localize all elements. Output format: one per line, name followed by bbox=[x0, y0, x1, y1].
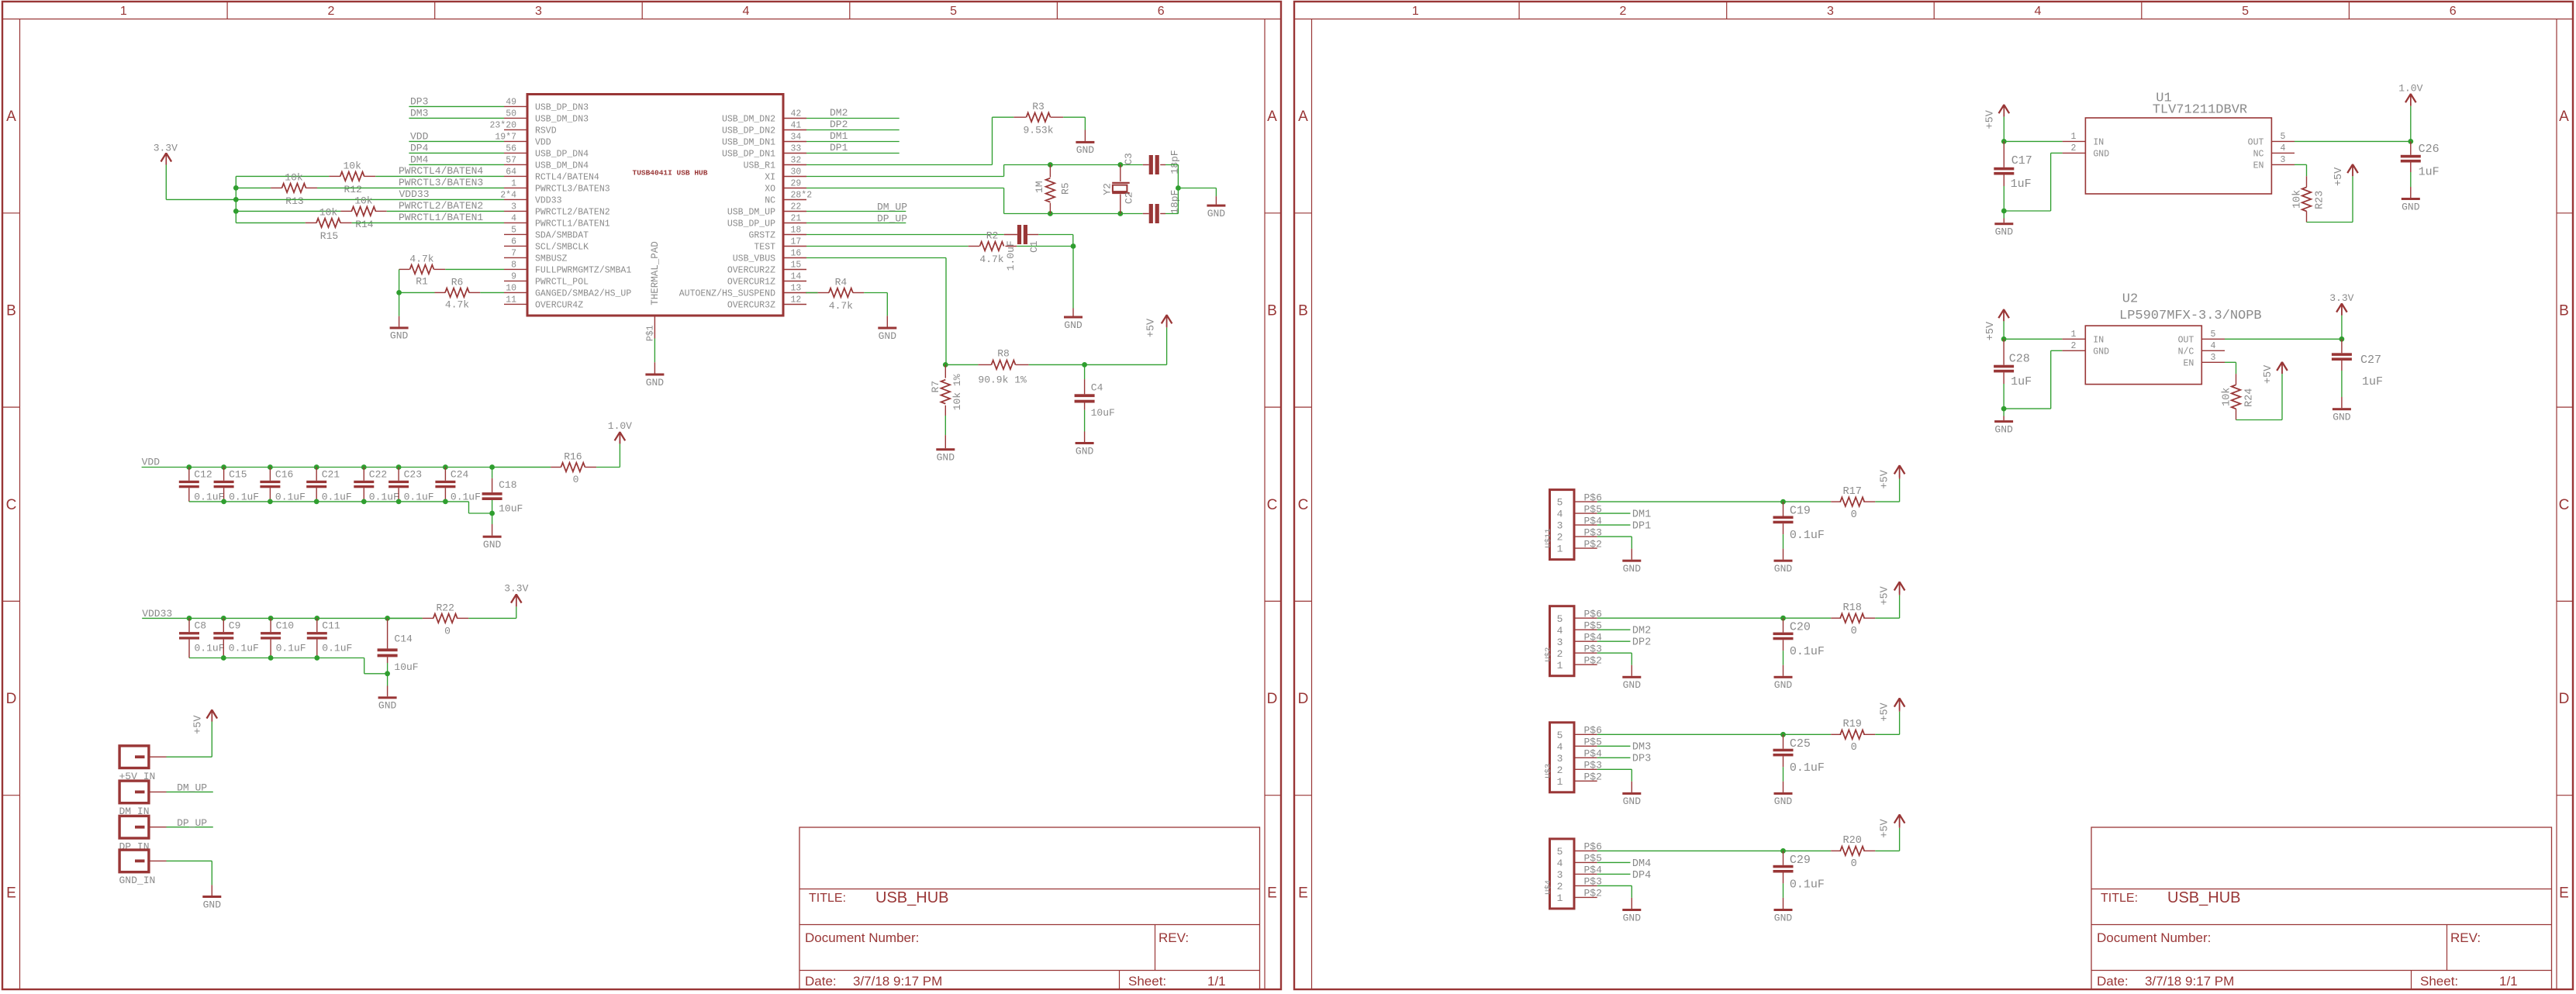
svg-text:C26: C26 bbox=[2419, 143, 2440, 156]
svg-text:NC: NC bbox=[2253, 149, 2264, 159]
svg-text:DM1: DM1 bbox=[1632, 509, 1651, 521]
junction Y2 top bbox=[1117, 162, 1123, 167]
svg-text:EN: EN bbox=[2183, 358, 2194, 368]
svg-text:42: 42 bbox=[791, 109, 802, 119]
svg-text:DM_UP: DM_UP bbox=[177, 782, 207, 794]
capacitor C21 0.1uF bbox=[316, 468, 317, 481]
svg-text:4.7k: 4.7k bbox=[829, 300, 853, 312]
IC left pin 11 OVERCUR4Z bbox=[504, 303, 527, 305]
wire net VDD bbox=[409, 140, 504, 142]
svg-text:R4: R4 bbox=[835, 277, 848, 288]
svg-text:Sheet:: Sheet: bbox=[1128, 974, 1166, 989]
ground symbol below C14 bbox=[387, 686, 388, 697]
svg-text:21: 21 bbox=[791, 214, 802, 224]
svg-text:XO: XO bbox=[765, 185, 775, 195]
svg-text:5: 5 bbox=[2281, 132, 2286, 142]
svg-text:R17: R17 bbox=[1843, 486, 1862, 498]
wire net DM1 bbox=[806, 141, 900, 143]
svg-text:16: 16 bbox=[791, 249, 802, 259]
wire +5V to U1 IN bbox=[2004, 140, 2062, 142]
svg-text:PWRCTL_POL: PWRCTL_POL bbox=[535, 277, 589, 287]
capacitor C27 1uF bbox=[2341, 339, 2343, 353]
svg-text:C27: C27 bbox=[2360, 354, 2381, 367]
bypass row bottom rail to ground of C18 bbox=[189, 501, 469, 502]
svg-text:DM4: DM4 bbox=[1632, 858, 1651, 870]
supply symbol 3.3V (right of R22) bbox=[516, 594, 517, 606]
svg-text:E: E bbox=[1298, 885, 1308, 901]
junction C17 bottom bbox=[2001, 209, 2007, 214]
svg-text:R3: R3 bbox=[1032, 101, 1045, 112]
junction R6 row bbox=[396, 290, 402, 295]
capacitor C17 1uF bbox=[2003, 141, 2005, 167]
svg-text:GANGED/SMBA2/HS_UP: GANGED/SMBA2/HS_UP bbox=[535, 288, 631, 299]
svg-text:1.0V: 1.0V bbox=[2398, 83, 2422, 95]
junction C11 top bbox=[314, 616, 319, 621]
IC left pin 6 SCL/SMBCLK bbox=[504, 245, 527, 247]
svg-text:3: 3 bbox=[535, 5, 542, 18]
junction C27 top bbox=[2339, 337, 2345, 342]
ground symbol below C27 bbox=[2341, 397, 2343, 408]
ground symbol below R1/R6 bbox=[399, 316, 400, 327]
IC left pin 3 PWRCTL2/BATEN2 bbox=[504, 210, 527, 212]
resistor R15 10k bbox=[306, 222, 317, 223]
svg-text:GND: GND bbox=[2333, 412, 2351, 423]
svg-text:5: 5 bbox=[1557, 730, 1563, 741]
svg-text:B: B bbox=[6, 303, 16, 319]
svg-text:3.3V: 3.3V bbox=[504, 582, 528, 594]
svg-text:50: 50 bbox=[506, 109, 516, 119]
capacitor C24 0.1uF bbox=[444, 468, 446, 481]
svg-text:3: 3 bbox=[2281, 155, 2286, 165]
wire net DP_UP (pin 21) bbox=[806, 223, 906, 224]
wire pin 29 XO to crystal bottom rail bbox=[806, 188, 1004, 189]
svg-text:DP2: DP2 bbox=[1632, 637, 1651, 649]
svg-text:GRSTZ: GRSTZ bbox=[748, 231, 775, 241]
connector U$3 body bbox=[1550, 723, 1575, 792]
junction C22 bottom bbox=[361, 499, 367, 505]
svg-text:GND: GND bbox=[203, 899, 222, 910]
wire VDD bypass rail bbox=[142, 467, 551, 468]
capacitor C23 0.1uF bbox=[398, 468, 399, 481]
svg-text:5: 5 bbox=[2242, 5, 2249, 18]
wire P$1 to ground bbox=[654, 339, 655, 363]
wire U2 GND pin to C28 bottom bbox=[2051, 350, 2063, 351]
svg-text:R2: R2 bbox=[986, 230, 999, 242]
connector U$3 pin 2 P$3 bbox=[1574, 768, 1597, 770]
resistor R3 9.53k bbox=[1013, 116, 1026, 118]
svg-text:10k: 10k bbox=[343, 160, 361, 172]
svg-text:8: 8 bbox=[511, 261, 516, 271]
svg-text:0.1uF: 0.1uF bbox=[1790, 529, 1825, 542]
svg-text:Document Number:: Document Number: bbox=[2097, 930, 2211, 945]
svg-text:2: 2 bbox=[1557, 881, 1563, 892]
svg-text:4: 4 bbox=[1557, 509, 1563, 520]
wire net DM2 bbox=[1597, 629, 1631, 630]
ground symbol below U$4 bbox=[1631, 898, 1632, 909]
svg-text:RCTL4/BATEN4: RCTL4/BATEN4 bbox=[535, 172, 599, 182]
wire net DM4 bbox=[409, 164, 504, 165]
IC left pin 64 RCTL4/BATEN4 bbox=[504, 175, 527, 177]
wire net DP2 bbox=[1597, 640, 1631, 642]
svg-text:USB_R1: USB_R1 bbox=[744, 161, 776, 171]
svg-text:GND: GND bbox=[2093, 149, 2109, 159]
svg-text:C28: C28 bbox=[2009, 352, 2030, 365]
IC U$10 TUSB4041I USB HUB body bbox=[527, 95, 783, 316]
svg-text:10k 1%: 10k 1% bbox=[951, 374, 963, 410]
svg-text:C24: C24 bbox=[451, 469, 469, 481]
svg-text:C: C bbox=[1267, 497, 1278, 513]
svg-text:+5V: +5V bbox=[1879, 702, 1891, 721]
resistor R7 10k 1% (vertical) bbox=[944, 364, 946, 378]
svg-text:5: 5 bbox=[511, 226, 516, 236]
svg-text:10k: 10k bbox=[354, 195, 373, 207]
svg-text:1: 1 bbox=[2071, 330, 2077, 340]
wire U$3 P$6 rail bbox=[1597, 733, 1832, 735]
frame inner band lines bbox=[1311, 19, 1313, 990]
svg-text:4: 4 bbox=[2035, 5, 2042, 18]
svg-text:28*2: 28*2 bbox=[791, 191, 813, 201]
capacitor C29 0.1uF bbox=[1783, 851, 1784, 865]
resistor R8 90.9k 1% bbox=[978, 364, 991, 365]
svg-text:18: 18 bbox=[791, 226, 802, 236]
svg-text:TITLE:: TITLE: bbox=[809, 892, 846, 905]
sheet outer border frame bbox=[1294, 2, 2573, 989]
IC right pin 21 USB_DP_UP bbox=[783, 223, 806, 224]
ground symbol below GND_IN bbox=[211, 885, 212, 896]
svg-text:C: C bbox=[1298, 497, 1309, 513]
wire pin 16 USB_VBUS down to divider bbox=[806, 257, 946, 259]
svg-text:DP3: DP3 bbox=[410, 96, 428, 108]
IC U1 TLV71211DBVR body bbox=[2085, 118, 2271, 194]
svg-text:+5V: +5V bbox=[1146, 318, 1158, 337]
frame row ticks bbox=[1294, 212, 1312, 214]
svg-text:B: B bbox=[1267, 303, 1277, 319]
svg-text:1M: 1M bbox=[1034, 181, 1045, 193]
wire U$2 P$3 to ground bbox=[1597, 652, 1632, 654]
wire C14 to ground bbox=[387, 657, 388, 663]
svg-text:GND: GND bbox=[1774, 912, 1793, 923]
resistor R6 4.7k (pin 10) bbox=[435, 292, 446, 293]
IC left pin 9 PWRCTL_POL bbox=[504, 280, 527, 281]
svg-text:11: 11 bbox=[506, 295, 516, 305]
junction C25 top bbox=[1780, 732, 1786, 737]
wire left of resistor R15 bbox=[236, 222, 305, 223]
connector U$3 pin 4 P$5 bbox=[1574, 745, 1597, 747]
IC left pin 50 USB_DM_DN3 bbox=[504, 117, 527, 119]
supply symbol +5V (R19) bbox=[1899, 698, 1901, 712]
junction C19 top bbox=[1780, 499, 1786, 505]
svg-text:GND: GND bbox=[1774, 796, 1793, 807]
svg-text:1: 1 bbox=[1557, 892, 1563, 904]
svg-text:USB_DM_DN4: USB_DM_DN4 bbox=[535, 160, 589, 171]
svg-text:4: 4 bbox=[2281, 143, 2286, 154]
svg-text:R12: R12 bbox=[344, 184, 361, 195]
wire C1 to junction bbox=[1038, 234, 1073, 236]
U2 pin 4 N/C bbox=[2201, 350, 2225, 351]
svg-text:1uF: 1uF bbox=[2362, 375, 2383, 388]
svg-text:3.3V: 3.3V bbox=[154, 143, 178, 154]
svg-text:1: 1 bbox=[1557, 660, 1563, 671]
svg-text:4: 4 bbox=[2211, 341, 2216, 351]
svg-text:P$2: P$2 bbox=[1584, 888, 1602, 899]
svg-text:4.7k: 4.7k bbox=[979, 254, 1003, 265]
svg-text:R23: R23 bbox=[2314, 191, 2326, 209]
capacitor C22 0.1uF bbox=[363, 468, 364, 481]
wire U1 OUT to 1.0V bbox=[2295, 140, 2411, 142]
IC left pin 4 PWRCTL1/BATEN1 bbox=[504, 222, 527, 223]
capacitor C4 10uF bbox=[1084, 379, 1086, 394]
wire R4 to ground bbox=[864, 292, 887, 294]
svg-text:5: 5 bbox=[2211, 330, 2216, 340]
svg-text:USB_DM_UP: USB_DM_UP bbox=[727, 208, 775, 218]
connector U$2 pin 3 P$4 bbox=[1574, 640, 1597, 642]
svg-text:14: 14 bbox=[791, 272, 802, 282]
svg-text:DM4: DM4 bbox=[410, 154, 429, 166]
svg-text:4: 4 bbox=[743, 5, 750, 18]
wire net DM1 bbox=[1597, 513, 1631, 514]
junction C18 bottom bbox=[489, 511, 495, 516]
svg-text:17: 17 bbox=[791, 237, 802, 247]
svg-text:1/1: 1/1 bbox=[1207, 974, 1226, 989]
svg-text:R18: R18 bbox=[1843, 602, 1862, 614]
svg-text:R6: R6 bbox=[451, 277, 464, 288]
svg-text:GND: GND bbox=[1076, 144, 1095, 156]
wire +5V_IN to +5V arrow bbox=[167, 756, 212, 758]
svg-text:D: D bbox=[1298, 691, 1309, 707]
svg-text:2: 2 bbox=[2071, 341, 2077, 351]
svg-text:2: 2 bbox=[1557, 648, 1563, 660]
ground symbol below R7 bbox=[944, 435, 946, 448]
svg-text:A: A bbox=[2559, 109, 2569, 125]
capacitor C18 10uF bbox=[492, 468, 493, 478]
svg-text:3: 3 bbox=[1557, 753, 1563, 764]
svg-text:R22: R22 bbox=[436, 602, 454, 613]
svg-text:1: 1 bbox=[1557, 776, 1563, 788]
svg-text:5: 5 bbox=[1557, 846, 1563, 858]
supply symbol 3.3V (U2 output) bbox=[2341, 316, 2343, 340]
title block outline bbox=[799, 827, 1260, 989]
svg-text:VDD33: VDD33 bbox=[535, 195, 562, 205]
svg-text:1uF: 1uF bbox=[2011, 375, 2032, 388]
wire R8 junction to +5V bbox=[1085, 364, 1167, 365]
wire R20 to +5V bbox=[1875, 850, 1899, 851]
svg-text:PWRCTL2/BATEN2: PWRCTL2/BATEN2 bbox=[535, 207, 610, 217]
svg-text:0: 0 bbox=[444, 625, 451, 637]
wire R17 to +5V bbox=[1875, 501, 1899, 502]
svg-text:GND: GND bbox=[1774, 679, 1793, 691]
wire net DM4 bbox=[1597, 861, 1631, 863]
wire R2 to junction bbox=[1017, 246, 1073, 247]
wire net DM_UP (pin 22) bbox=[806, 211, 906, 212]
svg-text:GND: GND bbox=[2402, 201, 2420, 212]
svg-text:P$2: P$2 bbox=[1584, 771, 1602, 783]
svg-text:R24: R24 bbox=[2243, 388, 2255, 407]
supply symbol +5V (R20) bbox=[1899, 814, 1901, 828]
ground symbol below C28 bbox=[2003, 409, 2005, 416]
junction on rail at PWRCTL3 row bbox=[233, 185, 239, 191]
IC right pin 30 XI bbox=[783, 176, 806, 178]
wire R22 to 3.3V bbox=[468, 617, 516, 619]
svg-text:2*4: 2*4 bbox=[500, 191, 516, 201]
wire +5V to U2 IN bbox=[2004, 338, 2062, 340]
svg-text:GND: GND bbox=[378, 700, 397, 712]
svg-text:5: 5 bbox=[1557, 613, 1563, 625]
svg-text:PWRCTL3/BATEN3: PWRCTL3/BATEN3 bbox=[535, 184, 610, 194]
wire net DP_UP from DP_IN bbox=[167, 827, 213, 828]
wire net DP4 bbox=[409, 152, 504, 154]
IC right pin 33 USB_DP_DN1 bbox=[783, 153, 806, 154]
supply symbol +5V (R17) bbox=[1899, 465, 1901, 479]
wire GND_IN to ground bbox=[167, 860, 212, 861]
svg-text:4: 4 bbox=[1557, 625, 1563, 637]
svg-text:C14: C14 bbox=[394, 633, 413, 644]
svg-text:5: 5 bbox=[1557, 497, 1563, 509]
ground symbol below C29 bbox=[1783, 898, 1784, 909]
frame inner band lines bbox=[19, 19, 21, 990]
svg-text:GND: GND bbox=[1774, 563, 1793, 575]
svg-text:0: 0 bbox=[573, 474, 579, 485]
connector U$3 pin 3 P$4 bbox=[1574, 757, 1597, 758]
junction C24 top bbox=[443, 464, 448, 470]
resistor R16 0 bbox=[551, 467, 561, 468]
svg-text:P$2: P$2 bbox=[1584, 538, 1602, 550]
capacitor C14 10uF bbox=[387, 618, 388, 648]
connector U$3 pin 5 P$6 bbox=[1574, 733, 1597, 735]
connector U$2 body bbox=[1550, 606, 1575, 676]
wire R6 to pin 10 bbox=[480, 292, 504, 293]
capacitor C8 0.1uF bbox=[188, 618, 190, 632]
resistor R12 10k bbox=[329, 175, 340, 177]
svg-text:REV:: REV: bbox=[1159, 930, 1189, 945]
ground symbol below U$11 bbox=[1631, 549, 1632, 560]
IC right pin 22 USB_DM_UP bbox=[783, 211, 806, 212]
svg-text:IN: IN bbox=[2093, 335, 2104, 345]
wire junction to ground bbox=[1178, 188, 1216, 189]
wire net DP4 bbox=[1597, 873, 1631, 875]
IC left pin 56 USB_DP_DN4 bbox=[504, 152, 527, 154]
ground symbol below C19 bbox=[1783, 549, 1784, 560]
IC right pin 14 OVERCUR1Z bbox=[783, 281, 806, 282]
svg-text:C2: C2 bbox=[1123, 192, 1134, 204]
svg-text:6: 6 bbox=[511, 237, 516, 247]
svg-text:GND: GND bbox=[390, 330, 409, 342]
junction C21 top bbox=[314, 464, 319, 470]
svg-text:1.0V: 1.0V bbox=[608, 420, 632, 432]
IC right pin 34 USB_DM_DN1 bbox=[783, 141, 806, 143]
frame row ticks bbox=[2, 212, 20, 214]
capacitor C26 1uF bbox=[2410, 141, 2412, 154]
capacitor C16 0.1uF bbox=[269, 468, 271, 481]
IC left pin 2*4 VDD33 bbox=[504, 198, 527, 200]
resistor R17 0 bbox=[1831, 501, 1841, 502]
junction crystal caps to ground bbox=[1176, 185, 1181, 191]
svg-text:R8: R8 bbox=[997, 348, 1010, 360]
svg-text:DP4: DP4 bbox=[410, 143, 429, 154]
svg-text:VDD: VDD bbox=[410, 131, 429, 143]
svg-text:0.1uF: 0.1uF bbox=[1790, 761, 1825, 775]
capacitor C9 0.1uF bbox=[223, 618, 224, 632]
ground symbol below C20 bbox=[1783, 665, 1784, 676]
svg-text:23*20: 23*20 bbox=[489, 121, 516, 131]
supply symbol 1.0V bbox=[619, 432, 620, 444]
U1 pin 3 EN bbox=[2271, 164, 2295, 165]
svg-text:GND: GND bbox=[1207, 208, 1226, 219]
svg-text:22: 22 bbox=[791, 202, 802, 212]
IC left pin 1 PWRCTL3/BATEN3 bbox=[504, 187, 527, 188]
svg-text:GND: GND bbox=[1076, 445, 1094, 457]
connector U$11 pin 1 P$2 bbox=[1574, 547, 1597, 549]
svg-text:C11: C11 bbox=[322, 620, 340, 632]
svg-text:C: C bbox=[6, 497, 17, 513]
svg-text:B: B bbox=[2559, 303, 2569, 319]
svg-text:C15: C15 bbox=[229, 469, 247, 481]
connector U$4 pin 2 P$3 bbox=[1574, 885, 1597, 886]
svg-text:USB_DP_DN1: USB_DP_DN1 bbox=[722, 150, 775, 160]
wire pin 32 USB_R1 to R3 bbox=[806, 164, 993, 166]
resistor R19 0 bbox=[1831, 733, 1841, 735]
svg-text:R14: R14 bbox=[355, 219, 374, 230]
wire C18 to ground bbox=[492, 500, 493, 513]
svg-text:TUSB4041I USB HUB: TUSB4041I USB HUB bbox=[633, 168, 708, 177]
svg-text:+5V: +5V bbox=[1985, 321, 1997, 340]
capacitor C2 18pF bbox=[1143, 213, 1149, 215]
junction C24 bottom bbox=[443, 499, 448, 505]
connector U$4 pin 3 P$4 bbox=[1574, 873, 1597, 875]
svg-text:OVERCUR4Z: OVERCUR4Z bbox=[535, 300, 583, 310]
svg-text:DM_UP: DM_UP bbox=[877, 202, 907, 213]
svg-text:+5V: +5V bbox=[2333, 167, 2345, 186]
svg-text:C10: C10 bbox=[276, 620, 294, 632]
junction C20 top bbox=[1780, 616, 1786, 621]
input pad DM_IN bbox=[119, 781, 149, 803]
resistor R23 10k (vertical) bbox=[2306, 176, 2308, 187]
svg-text:DP1: DP1 bbox=[1632, 521, 1651, 533]
wire net DP3 bbox=[409, 105, 504, 107]
svg-text:4: 4 bbox=[1557, 858, 1563, 869]
svg-text:DP_UP: DP_UP bbox=[877, 213, 907, 225]
svg-text:33: 33 bbox=[791, 144, 802, 154]
junction C8 top bbox=[187, 616, 192, 621]
svg-text:TLV71211DBVR: TLV71211DBVR bbox=[2153, 103, 2247, 118]
svg-text:+5V: +5V bbox=[1984, 109, 1996, 129]
svg-text:7: 7 bbox=[511, 249, 516, 259]
svg-text:2: 2 bbox=[1619, 5, 1626, 18]
capacitor C3 18pF bbox=[1143, 164, 1149, 166]
wire right of resistor R13 bbox=[317, 187, 504, 188]
svg-text:GND_IN: GND_IN bbox=[119, 875, 156, 886]
svg-text:6: 6 bbox=[1158, 5, 1165, 18]
svg-text:Y2: Y2 bbox=[1102, 183, 1114, 195]
U1 pin 4 NC bbox=[2271, 152, 2295, 154]
capacitor C25 0.1uF bbox=[1783, 734, 1784, 748]
resistor R18 0 bbox=[1831, 617, 1841, 619]
capacitor C20 0.1uF bbox=[1783, 618, 1784, 632]
U2 pin 2 GND bbox=[2062, 350, 2085, 351]
connector U$11 pin 5 P$6 bbox=[1574, 501, 1597, 502]
wire R8 to C4 junction bbox=[1029, 364, 1085, 365]
wire U$3 P$3 to ground bbox=[1597, 768, 1632, 770]
junction C29 top bbox=[1780, 848, 1786, 854]
svg-text:5: 5 bbox=[950, 5, 957, 18]
IC U2 LP5907MFX-3.3/NOPB body bbox=[2085, 326, 2201, 385]
connector U$2 pin 2 P$3 bbox=[1574, 652, 1597, 654]
IC left pin 5 SDA/SMBDAT bbox=[504, 233, 527, 235]
svg-text:C25: C25 bbox=[1790, 737, 1811, 751]
wire R7 to ground bbox=[944, 416, 946, 435]
junction R5 top bbox=[1048, 162, 1053, 167]
svg-text:PWRCTL1/BATEN1: PWRCTL1/BATEN1 bbox=[399, 212, 483, 223]
junction C12 top bbox=[186, 464, 192, 470]
